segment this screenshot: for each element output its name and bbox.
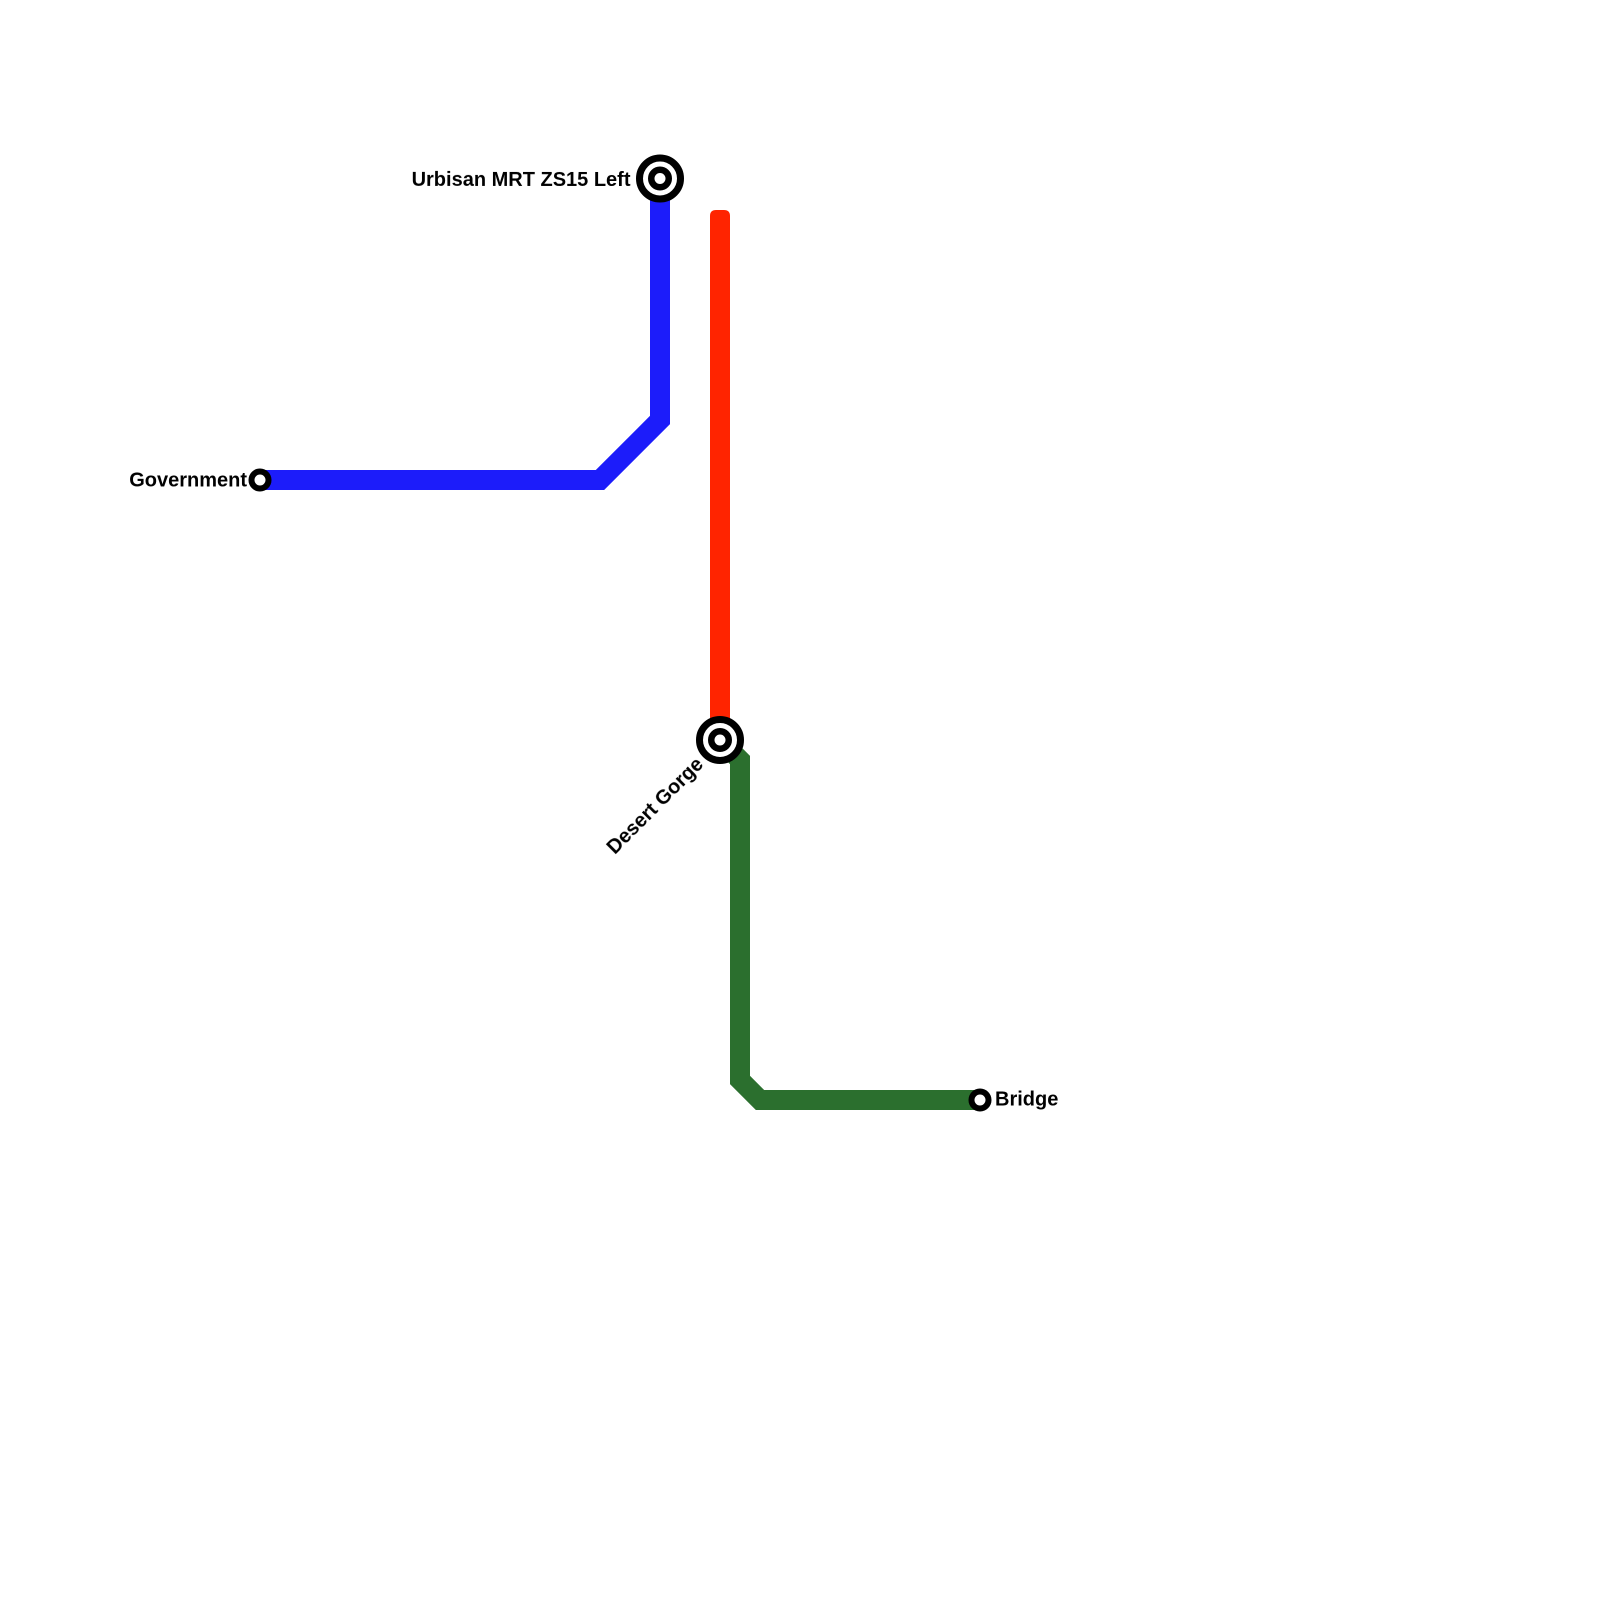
svg-text:Government: Government [129,469,247,491]
interchange station Urbisan MRT ZS15 Left [640,158,681,199]
station Government [252,472,269,489]
svg-text:Bridge: Bridge [995,1089,1058,1111]
green line (Desert Gorge - Bridge) [720,740,980,1100]
blue line (Urbisan MRT ZS15 Left - Government) [260,179,660,480]
interchange station Desert Gorge [700,720,741,761]
red line (vertical to Desert Gorge) [710,210,730,740]
svg-text:Urbisan MRT ZS15 Left: Urbisan MRT ZS15 Left [412,169,631,191]
labels group [129,169,1058,1111]
station Bridge [972,1092,989,1109]
